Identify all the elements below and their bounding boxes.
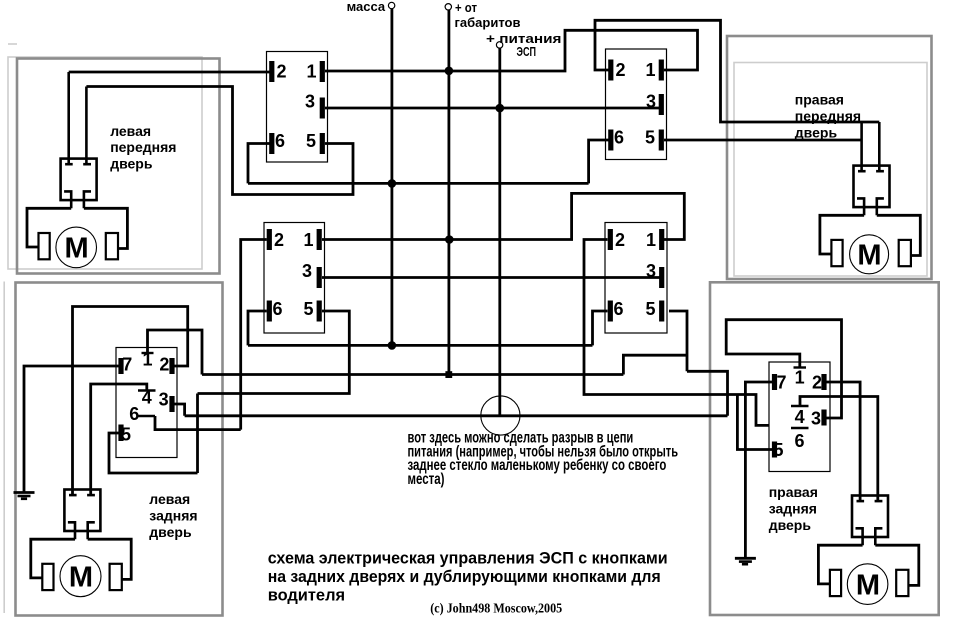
svg-text:+ от: + от (455, 1, 477, 15)
wire S3 pin2 stub and drop to rear-left pin6 line (241, 240, 267, 430)
node + питания ЭСП terminal circle (496, 42, 502, 48)
S4 pin 1 bar (659, 229, 664, 250)
svg-text:передняя: передняя (795, 108, 861, 124)
brush right (front-right motor) (899, 240, 911, 266)
wire S1 pin2 to front-left door connector (69, 71, 270, 74)
svg-text:1: 1 (645, 60, 655, 80)
svg-text:правая: правая (795, 92, 844, 108)
svg-text:+ питания: + питания (486, 32, 562, 46)
ground symbol right (735, 557, 756, 560)
S2 pin 1 bar (659, 60, 664, 81)
switch S1 front-left body (267, 52, 328, 163)
svg-text:левая: левая (110, 123, 151, 139)
ground symbol left (14, 491, 35, 494)
wire S4 pin2 drop to rear-right pin6 (584, 240, 794, 426)
switch S3 mid-left body (264, 223, 325, 334)
svg-text:дверь: дверь (110, 156, 153, 172)
node масса terminal circle (388, 2, 394, 8)
wire масса link S3 pin6 to S4 pin6 (248, 344, 593, 347)
motor M front-left (56, 227, 97, 268)
S5 pin 4 bar (138, 389, 156, 391)
S1 pin 1 bar (320, 61, 325, 82)
S6 pin 4 wire to connector pin (800, 397, 878, 502)
svg-text:5: 5 (306, 131, 316, 151)
wire масса vertical bus (390, 9, 393, 345)
S2 pin 5 bar (659, 130, 664, 151)
S2 pin 6 bar (608, 130, 613, 151)
junction dot габариты x S1-pin1 line (445, 67, 454, 76)
svg-text:5: 5 (303, 299, 313, 319)
door enclosure front-left (gray frame) (17, 59, 220, 274)
switch S2 front-right body (606, 49, 667, 160)
branch vertical linking rear-left lines (196, 394, 199, 474)
svg-text:7: 7 (776, 373, 786, 393)
wire S1 pin5 loop to front-left door connector (86, 87, 353, 195)
wire питания вертикаль bus (498, 48, 501, 416)
connector front-left door (61, 72, 97, 208)
S1 pin 5 bar (320, 133, 325, 154)
wire S4 pin6 drop (593, 311, 608, 345)
svg-text:1: 1 (795, 368, 805, 388)
svg-text:2: 2 (274, 230, 284, 250)
svg-text:4: 4 (795, 407, 805, 427)
svg-text:M: M (857, 240, 881, 272)
svg-text:1: 1 (646, 230, 656, 250)
S6 pin 4 bar (791, 405, 809, 407)
door enclosure front-right (gray frame) (727, 36, 932, 279)
wire S3 pin1 line to S4 pin1 bridge (322, 193, 684, 239)
svg-text:1: 1 (306, 62, 316, 82)
wire rear-right motor yoke (818, 545, 862, 584)
S6 pin 1 bar (794, 366, 807, 368)
brush left (front-left motor) (39, 233, 50, 259)
wire S3 pin5 drop to rear-left branch (198, 311, 350, 394)
S3 pin 1 bar (317, 229, 322, 250)
wire front-left motor yoke (27, 208, 71, 247)
connector rear-right door (852, 496, 888, 546)
junction dot габариты x S3-pin1 line (445, 235, 454, 244)
S1 pin 2 bar (269, 61, 274, 82)
svg-text:ЭСП: ЭСП (517, 45, 537, 59)
svg-text:2: 2 (615, 60, 625, 80)
svg-text:габаритов: габаритов (455, 16, 521, 30)
S6 pin 2 bar (821, 374, 826, 390)
S2 pin 2 bar (608, 60, 613, 81)
svg-text:схема электрическая управления: схема электрическая управления ЭСП с кно… (268, 549, 668, 568)
svg-text:заднее стекло маленькому ребен: заднее стекло маленькому ребенку со свое… (408, 457, 667, 474)
artifact dash top-left (8, 43, 17, 45)
door enclosure front-right (light inner frame) (734, 63, 927, 277)
svg-text:M: M (69, 561, 93, 593)
brush left (rear-right motor) (830, 570, 841, 596)
S6 pin 5 wire riser (737, 395, 772, 450)
door enclosure rear-left (light offset frame) (3, 282, 5, 614)
wire S2 pin2 top loop to front-right door (595, 20, 879, 122)
S5 pin 7 wire to ground (24, 366, 119, 492)
S6 pin 7 bar (772, 374, 777, 390)
S3 pin 5 bar (317, 301, 322, 322)
S3 pin 6 bar (267, 301, 272, 322)
svg-text:6: 6 (614, 128, 624, 148)
S6 pin 3 bar (821, 410, 826, 426)
wire S3 pin3 line to S4 pin3 (322, 276, 660, 279)
svg-text:масса: масса (347, 0, 387, 14)
wire S2 pin6 drop (589, 140, 609, 183)
brush right (rear-right motor) (896, 570, 908, 596)
junction dot масса x pin6 line row2 (388, 341, 397, 350)
door enclosure front-left (light offset frame) (8, 57, 202, 269)
S4 pin 2 bar (608, 229, 613, 250)
svg-text:5: 5 (773, 440, 783, 460)
S3 pin 3 bar (317, 267, 322, 288)
brush left (front-right motor) (831, 240, 842, 266)
svg-text:1: 1 (303, 230, 313, 250)
svg-text:5: 5 (645, 128, 655, 148)
svg-text:M: M (856, 569, 880, 601)
S5 pin 6 stub (138, 415, 155, 417)
S2 pin 3 bar (659, 94, 664, 115)
S5 pin 1 bar (142, 352, 154, 354)
svg-text:дверь: дверь (769, 517, 812, 533)
svg-text:5: 5 (121, 425, 131, 445)
svg-text:6: 6 (275, 131, 285, 151)
svg-text:2: 2 (276, 62, 286, 82)
svg-text:места): места) (408, 471, 445, 488)
switch S5 rear-left body (116, 348, 177, 458)
S5 pin 3 bar (169, 396, 174, 412)
svg-text:задняя: задняя (149, 508, 197, 524)
wire rear-left motor yoke (31, 539, 75, 578)
svg-text:2: 2 (615, 230, 625, 250)
wire S3 pin6 stub (248, 311, 267, 345)
S5 pin 1 wire up and over to габариты line (148, 330, 203, 375)
S6 pin 7 wire to ground (745, 382, 772, 557)
svg-text:(c) John498 Moscow,2005: (c) John498 Moscow,2005 (430, 602, 562, 617)
motor M rear-left (60, 556, 101, 597)
svg-text:водителя: водителя (268, 585, 345, 604)
S5 pin 6 wire down and right (155, 416, 241, 430)
S3 pin 2 bar (267, 229, 272, 250)
svg-text:3: 3 (305, 92, 315, 112)
wire S2 pin5 to front-right door (664, 139, 862, 142)
wire S1 pin3 power line to S2 pin3 (325, 107, 659, 110)
svg-text:3: 3 (302, 261, 312, 281)
svg-text:на задних дверях и дублирующим: на задних дверях и дублирующими кнопками… (268, 567, 661, 586)
S4 pin 6 bar (608, 301, 613, 322)
node + от габаритов terminal circle (445, 4, 451, 10)
junction square габариты end on rear pin1 line (445, 371, 452, 378)
svg-text:M: M (65, 233, 89, 265)
svg-text:передняя: передняя (110, 139, 176, 155)
S6 pin 5 bar (772, 442, 777, 458)
wire масса link S1 pin6 to S2 pin6 (248, 182, 589, 185)
switch S4 mid-right body (605, 223, 667, 334)
brush right (front-left motor) (106, 233, 118, 259)
svg-text:6: 6 (272, 299, 282, 319)
motor M front-right (850, 235, 889, 274)
S5 pin 2 wire over top to connector pin (73, 307, 188, 496)
svg-text:задняя: задняя (769, 501, 817, 517)
svg-text:2: 2 (812, 373, 822, 393)
connector rear-left door (64, 490, 100, 540)
svg-text:3: 3 (159, 390, 169, 410)
wire S1 pin1 illumination line to габариты node (325, 30, 698, 71)
switch S6 rear-right body (769, 362, 830, 472)
wire S4 pin5 to габариты line jog (623, 355, 687, 374)
brush right (rear-left motor) (110, 564, 122, 590)
wire питания feed line to rear switches (185, 414, 728, 417)
svg-text:6: 6 (129, 404, 139, 424)
S6 pin 1 wire loop from pin 3 riser (726, 320, 841, 418)
wire S4 pin5 to питания line jog (687, 371, 728, 416)
break-point circle on питания line (481, 396, 520, 435)
connector front-right door (854, 122, 890, 215)
svg-text:левая: левая (149, 491, 190, 507)
motor M rear-right (847, 564, 888, 605)
svg-text:2: 2 (159, 355, 169, 375)
svg-text:дверь: дверь (795, 124, 838, 140)
svg-text:6: 6 (613, 299, 623, 319)
svg-text:5: 5 (645, 299, 655, 319)
door enclosure rear-right (gray frame) (710, 282, 939, 615)
brush left (rear-left motor) (42, 564, 53, 590)
wire S1 pin6 stub (248, 144, 270, 184)
S1 pin 3 bar (320, 98, 325, 119)
S4 pin 5 bar (659, 301, 664, 322)
S4 pin 3 bar (659, 267, 664, 288)
svg-text:дверь: дверь (149, 524, 192, 540)
S6 pin 6 bar (791, 427, 809, 429)
svg-text:правая: правая (769, 484, 818, 500)
svg-text:7: 7 (122, 355, 132, 375)
S5 pin 5 bar (118, 425, 123, 442)
S5 pin 4 wire to connector pin (91, 384, 147, 495)
S5 pin 3 stub to питания line (174, 404, 184, 416)
junction dot питания x S1-pin3 line (496, 104, 505, 113)
wire S4 pin5 drop (669, 311, 687, 371)
S5 pin 2 bar (169, 358, 174, 374)
S1 pin 6 bar (269, 133, 274, 154)
svg-text:6: 6 (794, 431, 804, 451)
junction dot масса x pin6 line row1 (388, 179, 397, 188)
S6 pin 2 wire to connector pin (826, 382, 860, 501)
wire габариты line to rear-left pin1 (202, 373, 623, 376)
wire front-right motor yoke (820, 215, 864, 254)
door enclosure rear-left (gray frame) (16, 283, 223, 616)
S5 pin 5 wire loop (109, 433, 198, 473)
S5 pin 7 bar (118, 358, 123, 374)
wire габариты vertical bus (447, 10, 450, 375)
svg-text:3: 3 (811, 409, 821, 429)
